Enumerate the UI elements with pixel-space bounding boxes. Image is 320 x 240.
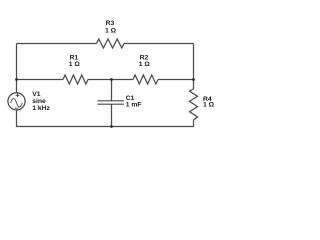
V1 sine glyph <box>11 99 23 107</box>
node junction bottom-center <box>110 125 113 128</box>
wire right vertical lower <box>193 120 195 127</box>
svg-text:1 Ω: 1 Ω <box>203 102 215 109</box>
wire capacitor branch lower <box>111 104 113 127</box>
svg-text:R3: R3 <box>106 20 115 27</box>
svg-text:V1: V1 <box>32 91 41 98</box>
svg-text:1 kHz: 1 kHz <box>32 105 50 112</box>
node junction middle-left <box>15 78 18 81</box>
resistor R4 <box>190 89 198 120</box>
wire bottom <box>17 126 194 128</box>
wire middle horizontal center <box>88 79 133 81</box>
wire top-right segment <box>124 43 194 45</box>
svg-text:1 mF: 1 mF <box>126 102 142 109</box>
V1 minus sign <box>15 107 19 109</box>
voltage source V1 <box>8 93 25 110</box>
wire middle horizontal left <box>17 79 64 81</box>
resistor R2 <box>133 75 158 84</box>
wire middle horizontal right <box>158 79 194 81</box>
svg-text:1 Ω: 1 Ω <box>139 61 151 68</box>
V1 plus sign <box>16 94 20 98</box>
wire capacitor branch upper <box>111 80 113 101</box>
wire top-left segment <box>17 43 97 45</box>
capacitor C1 <box>98 101 125 104</box>
wire left vertical lower <box>16 110 18 127</box>
svg-text:1 Ω: 1 Ω <box>69 61 81 68</box>
wire right vertical upper <box>193 44 195 90</box>
wire left vertical upper <box>16 44 18 93</box>
resistor R1 <box>63 75 88 84</box>
node junction middle-center <box>110 78 113 81</box>
node junction middle-right <box>192 78 195 81</box>
resistor R3 <box>97 39 125 48</box>
svg-text:1 Ω: 1 Ω <box>105 28 117 35</box>
